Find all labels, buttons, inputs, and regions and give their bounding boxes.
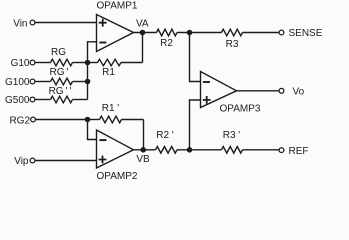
svg-text:R2 ': R2 ' bbox=[156, 130, 174, 141]
svg-text:G10: G10 bbox=[11, 58, 30, 69]
svg-text:RG ' ': RG ' ' bbox=[49, 86, 72, 97]
svg-text:Vin: Vin bbox=[13, 18, 27, 29]
svg-text:R1 ': R1 ' bbox=[102, 103, 120, 114]
svg-text:R3 ': R3 ' bbox=[223, 130, 241, 141]
svg-text:REF: REF bbox=[289, 146, 309, 157]
svg-text:RG2: RG2 bbox=[9, 116, 30, 127]
svg-text:RG ': RG ' bbox=[50, 67, 69, 78]
svg-text:VA: VA bbox=[136, 18, 149, 29]
svg-text:SENSE: SENSE bbox=[289, 28, 323, 39]
svg-text:R1: R1 bbox=[102, 67, 115, 78]
svg-text:Vip: Vip bbox=[14, 156, 29, 167]
svg-text:G500: G500 bbox=[5, 95, 30, 106]
svg-text:VB: VB bbox=[136, 154, 150, 165]
svg-text:R3: R3 bbox=[226, 39, 239, 50]
svg-text:R2: R2 bbox=[160, 38, 173, 49]
svg-text:G100: G100 bbox=[5, 77, 30, 88]
svg-text:OPAMP1: OPAMP1 bbox=[97, 1, 138, 12]
svg-text:OPAMP3: OPAMP3 bbox=[220, 104, 261, 115]
svg-text:RG: RG bbox=[51, 47, 66, 58]
svg-text:Vo: Vo bbox=[293, 86, 305, 97]
svg-text:OPAMP2: OPAMP2 bbox=[97, 171, 138, 182]
